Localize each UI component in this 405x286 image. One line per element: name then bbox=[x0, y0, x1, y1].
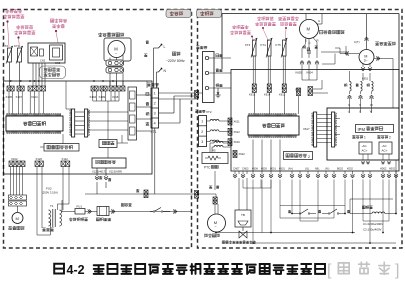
wires X120 down bbox=[36, 167, 38, 236]
terminal XT2 label bbox=[195, 110, 198, 113]
svg-text:B002: B002 bbox=[337, 168, 343, 171]
compressor phase coils bbox=[344, 84, 347, 87]
bottom extra verticals bbox=[242, 180, 244, 189]
connector X102 bbox=[9, 161, 25, 167]
connector X105 bbox=[7, 86, 14, 91]
wires X112 to transformer bbox=[62, 167, 64, 211]
svg-text:K611: K611 bbox=[279, 93, 286, 97]
outdoor right edge wire bbox=[395, 160, 397, 214]
svg-text:U: U bbox=[348, 110, 350, 114]
control board 1 label bbox=[44, 144, 79, 152]
wires relay to opto strip bbox=[117, 142, 128, 144]
valve symbol bbox=[239, 227, 247, 238]
wires opto strip to XT1 bbox=[137, 94, 152, 96]
wires below power board bbox=[96, 168, 98, 176]
label outdoor pipe temp sensor bbox=[232, 25, 235, 29]
stepper motor wires bbox=[10, 167, 12, 196]
outdoor K connectors to IC2 bbox=[253, 92, 255, 113]
svg-text:K002: K002 bbox=[347, 168, 353, 171]
svg-text:X102: X102 bbox=[11, 157, 18, 161]
wire from transformer to fuse line bbox=[61, 200, 63, 212]
rectifier bridge 1 bbox=[359, 142, 372, 154]
svg-text:3~: 3~ bbox=[364, 59, 368, 63]
control board 2 label bbox=[284, 152, 313, 160]
connector K611 bbox=[282, 84, 286, 92]
svg-text:FU2: FU2 bbox=[46, 187, 52, 191]
svg-text:M: M bbox=[16, 216, 19, 221]
connector X611 bbox=[228, 118, 232, 125]
fan motor top wire bbox=[305, 14, 307, 20]
power wire labels bbox=[146, 41, 149, 44]
wires X104 X109 X115 down bbox=[92, 91, 94, 101]
connector pair bbox=[88, 210, 90, 214]
label indoor ambient temp sensor bbox=[16, 25, 19, 29]
compressor label bbox=[375, 42, 378, 45]
compressor right wire bbox=[374, 58, 393, 60]
four-way valve solenoid bbox=[235, 210, 251, 227]
svg-text:]: ] bbox=[395, 262, 399, 279]
svg-text:1: 1 bbox=[364, 136, 366, 140]
ladder connector X617 bbox=[314, 112, 317, 147]
XT2 coils to board bbox=[207, 120, 211, 122]
relay box bbox=[99, 140, 117, 148]
compressor left wire bbox=[340, 53, 359, 55]
board bottom chevron connectors bbox=[234, 171, 236, 175]
connector X120 bbox=[35, 161, 43, 167]
svg-text:V: V bbox=[359, 103, 361, 107]
svg-text:L: L bbox=[164, 45, 166, 49]
svg-text:2: 2 bbox=[389, 136, 391, 140]
svg-text:2: 2 bbox=[308, 155, 310, 159]
svg-text:3: 3 bbox=[201, 140, 203, 144]
bottom junction dots bbox=[252, 242, 254, 244]
IPM left wires from ladder bbox=[335, 118, 340, 120]
svg-text:CN07: CN07 bbox=[233, 168, 240, 171]
connector X618 bbox=[297, 88, 301, 96]
fan motor wires bbox=[109, 58, 111, 61]
svg-text:(250V 3.15A): (250V 3.15A) bbox=[42, 191, 58, 195]
sensor wires down bbox=[252, 56, 254, 84]
svg-text:2: 2 bbox=[201, 130, 203, 134]
boundary connector bottom bbox=[195, 191, 199, 199]
connector K615 bbox=[252, 84, 256, 92]
outdoor unit tab bbox=[197, 10, 222, 18]
svg-text:KT2: KT2 bbox=[3, 44, 9, 48]
svg-text:CN03: CN03 bbox=[242, 168, 249, 171]
power source label bbox=[172, 52, 176, 56]
svg-text:-AC: -AC bbox=[362, 144, 368, 148]
svg-text:X120: X120 bbox=[36, 157, 43, 161]
wires connectors to IC1 bbox=[8, 91, 10, 114]
compressor bottom wires bbox=[362, 64, 364, 67]
svg-text:~220V 50Hz: ~220V 50Hz bbox=[166, 59, 185, 63]
svg-text:KT3: KT3 bbox=[245, 43, 251, 47]
stepper motor bbox=[17, 206, 19, 212]
svg-text:XT2: XT2 bbox=[206, 110, 212, 114]
svg-text:K615: K615 bbox=[249, 93, 256, 97]
svg-text:1: 1 bbox=[154, 92, 156, 96]
connector X616b bbox=[228, 139, 232, 146]
compressor right-down wire bbox=[349, 199, 351, 214]
svg-text:PTC: PTC bbox=[204, 166, 211, 170]
boundary connector indoor-outdoor bbox=[195, 91, 199, 99]
svg-text:HD02: HD02 bbox=[380, 168, 387, 171]
connector K614 bbox=[267, 84, 271, 92]
brown blue wire labels bbox=[209, 186, 212, 189]
relay contact 2 bbox=[322, 213, 328, 215]
connector X112 bbox=[61, 161, 70, 167]
svg-text:1: 1 bbox=[201, 120, 203, 124]
drive circuit 1 label bbox=[352, 135, 355, 138]
indoor misc vertical wires bbox=[146, 81, 148, 88]
svg-text:X616: X616 bbox=[234, 140, 241, 144]
L N arrows bbox=[159, 44, 163, 48]
connector X109 bbox=[100, 86, 107, 91]
svg-text:X123(4617): X123(4617) bbox=[92, 170, 106, 174]
svg-text:X113(A3R): X113(A3R) bbox=[109, 170, 122, 174]
vent motor connector bbox=[213, 197, 217, 204]
wires right of fan connectors bbox=[321, 51, 346, 53]
fan motor connector wires bbox=[109, 81, 111, 86]
inverter compressor bbox=[359, 50, 374, 65]
rectifier bridge 2 bbox=[379, 142, 392, 154]
svg-text:CN2: CN2 bbox=[40, 59, 46, 63]
compressor top wire bbox=[366, 14, 368, 50]
terminal board XT1 bbox=[151, 88, 159, 128]
display board wire bundle bbox=[32, 63, 34, 86]
power wires bbox=[153, 48, 155, 88]
svg-text:KT5: KT5 bbox=[276, 43, 282, 47]
fan chevrons into board bbox=[301, 70, 303, 81]
thermistor RT4 bbox=[268, 40, 272, 56]
control board 1 outline bbox=[4, 81, 153, 174]
svg-text:C2:130u/400V: C2:130u/400V bbox=[363, 228, 382, 232]
svg-text:AC+: AC+ bbox=[382, 149, 388, 153]
label indoor pipe temp sensor bbox=[5, 9, 8, 13]
indoor unit dashed border bbox=[4, 10, 192, 249]
svg-text:X616: X616 bbox=[295, 88, 302, 92]
wire xt1 third crossing bbox=[159, 98, 197, 100]
cross-flow fan motor label bbox=[98, 33, 102, 37]
svg-text:FU1: FU1 bbox=[77, 205, 83, 209]
junction wire to boundary brown bbox=[85, 193, 196, 195]
svg-text:X622: X622 bbox=[239, 152, 246, 156]
label display and indicator bbox=[50, 19, 53, 22]
svg-text:V: V bbox=[359, 110, 361, 114]
reactor coil bbox=[350, 213, 372, 215]
cross-flow fan motor bbox=[104, 38, 131, 61]
svg-text:W: W bbox=[370, 103, 373, 107]
svg-text:TB: TB bbox=[241, 213, 245, 217]
wires IC2 to board bottom bbox=[252, 140, 254, 172]
fan motor coupler bars bbox=[106, 60, 124, 66]
wire RT1 down bbox=[9, 62, 11, 86]
connector X612 bbox=[228, 128, 232, 135]
label outdoor ambient temp sensor bbox=[257, 17, 260, 21]
svg-text:K614: K614 bbox=[264, 93, 271, 97]
svg-text:[: [ bbox=[327, 262, 332, 279]
reactor coil component bbox=[97, 207, 109, 216]
thermistor RT2 bbox=[18, 48, 22, 62]
svg-text:CN3: CN3 bbox=[55, 61, 61, 65]
IPM inner chevrons bbox=[362, 154, 364, 160]
svg-text:X115: X115 bbox=[112, 95, 119, 99]
power supply board bbox=[92, 158, 126, 168]
svg-text:X612: X612 bbox=[234, 130, 241, 134]
terminal board XT1 label bbox=[147, 83, 150, 86]
svg-text:3: 3 bbox=[154, 112, 156, 116]
indoor unit tab bbox=[166, 10, 191, 18]
wires ladder to strip bbox=[88, 111, 128, 113]
microprocessor 2 bbox=[249, 114, 296, 116]
XT1 wire color labels bbox=[146, 92, 149, 95]
svg-text:KT1: KT1 bbox=[14, 44, 20, 48]
reactor label bbox=[362, 206, 365, 209]
svg-text:K604: K604 bbox=[307, 71, 314, 75]
svg-text:U: U bbox=[348, 103, 350, 107]
svg-text:-AC: -AC bbox=[382, 144, 388, 148]
filter coils top bbox=[214, 142, 223, 144]
wire XT1 down to junction bbox=[154, 128, 156, 194]
label compressor exhaust temp sensor bbox=[278, 17, 281, 20]
wire RT2 down bbox=[19, 62, 21, 86]
svg-text:N6L: N6L bbox=[315, 168, 320, 171]
svg-text:X611: X611 bbox=[234, 120, 241, 124]
connector X107 bbox=[17, 86, 24, 91]
svg-text:AC+: AC+ bbox=[362, 149, 368, 153]
remote signal receive circuit label bbox=[40, 66, 66, 79]
thermistor RT5 bbox=[283, 40, 287, 56]
indoor bus junction dots bbox=[10, 80, 12, 82]
X618 X616 wires bbox=[298, 96, 300, 114]
thermistor RT1 bbox=[8, 48, 12, 62]
IPM UVW inner wires bbox=[349, 108, 351, 113]
connector X115 bbox=[109, 86, 125, 91]
svg-text:R5: R5 bbox=[212, 149, 216, 153]
fan connectors chevrons bbox=[300, 61, 304, 63]
svg-text:T1: T1 bbox=[50, 204, 54, 208]
outdoor unit dashed border bbox=[198, 10, 403, 249]
IPM power module box bbox=[327, 108, 399, 160]
fan capacitor bbox=[307, 50, 311, 52]
UVW chevrons bbox=[348, 95, 352, 97]
wires XT1 to boundary bbox=[159, 92, 197, 94]
IPM label bbox=[356, 125, 394, 133]
terminal strip outdoor bbox=[196, 46, 199, 49]
svg-text:(N-): (N-) bbox=[325, 168, 329, 171]
svg-text:IPM: IPM bbox=[358, 127, 366, 132]
board connector ladder bbox=[72, 109, 75, 137]
relay contact 1 bbox=[292, 213, 299, 215]
display circuit board bbox=[28, 43, 65, 63]
microprocessor 1 bbox=[7, 114, 61, 116]
svg-text:C1:2200u/400V: C1:2200u/400V bbox=[363, 222, 383, 226]
stepper driver bars bbox=[9, 195, 27, 200]
svg-text:X112: X112 bbox=[62, 157, 69, 161]
fuse FU1 bbox=[75, 209, 85, 215]
vent fan motor bbox=[208, 214, 226, 232]
optocoupler strip bbox=[128, 87, 137, 140]
svg-text:X107: X107 bbox=[16, 95, 23, 99]
svg-text:4-2: 4-2 bbox=[67, 263, 85, 277]
PTC resistor box bbox=[202, 153, 228, 164]
svg-text:L6L: L6L bbox=[305, 168, 310, 171]
svg-text:KT4: KT4 bbox=[261, 43, 267, 47]
outdoor chassis box bbox=[222, 13, 399, 15]
connector X622 bbox=[233, 151, 237, 158]
svg-text:4: 4 bbox=[154, 122, 156, 126]
svg-text:2: 2 bbox=[154, 102, 156, 106]
connector X104 bbox=[91, 86, 98, 91]
main power line with fuse bbox=[62, 211, 192, 213]
svg-text:~: ~ bbox=[215, 225, 217, 229]
svg-text:X617: X617 bbox=[303, 127, 310, 131]
bottom right long buses bbox=[350, 198, 393, 200]
svg-text:(N+): (N+) bbox=[288, 168, 293, 171]
control board 2 box bbox=[231, 70, 399, 172]
terminal strip XT2 bbox=[199, 116, 207, 147]
interlock switch bbox=[121, 203, 124, 206]
connector X124 bbox=[28, 86, 46, 91]
svg-text:K605: K605 bbox=[296, 71, 303, 75]
svg-text:XT1: XT1 bbox=[151, 130, 157, 134]
connector pair bbox=[111, 210, 113, 214]
axial fan motor bbox=[300, 20, 319, 39]
thermistor RT3 bbox=[253, 40, 257, 56]
drive circuit 2 label bbox=[377, 135, 380, 138]
svg-text:N002: N002 bbox=[389, 168, 396, 171]
ground symbol bbox=[217, 88, 219, 95]
svg-text:C(T): C(T) bbox=[354, 40, 360, 44]
bottom bus wires bbox=[253, 242, 396, 244]
